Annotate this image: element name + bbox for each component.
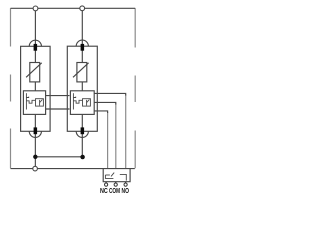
svg-text:COM: COM xyxy=(109,186,120,195)
svg-text:NC: NC xyxy=(100,186,108,195)
svg-text:NO: NO xyxy=(122,186,130,195)
